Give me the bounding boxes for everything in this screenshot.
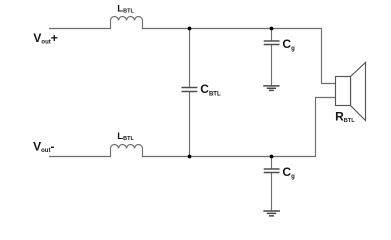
svg-text:Vout-: Vout- (33, 139, 54, 154)
svg-text:Vout+: Vout+ (33, 31, 57, 46)
svg-text:CBTL: CBTL (200, 82, 221, 97)
svg-text:LBTL: LBTL (117, 131, 134, 142)
svg-text:Cg: Cg (282, 165, 295, 180)
svg-text:LBTL: LBTL (117, 4, 134, 15)
svg-text:RBTL: RBTL (335, 109, 355, 124)
svg-text:Cg: Cg (282, 37, 295, 52)
